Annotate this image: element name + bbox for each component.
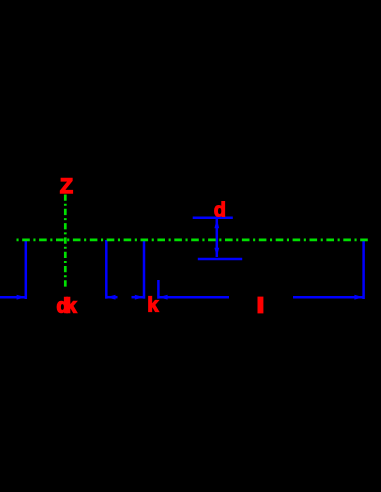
extension line k left [143, 240, 146, 299]
d dimension: vertical line [216, 219, 219, 257]
dimension l: line right part [293, 296, 364, 299]
d dimension: down arrow (tip at y=257) [214, 248, 219, 257]
dimension k: left arrow (tip at x=144, pointing right) [135, 295, 144, 300]
d dimension: up arrow (tip at y=219) [214, 219, 219, 228]
dimension l: line left part [158, 296, 229, 299]
centerline vertical (head front view axis) [64, 195, 67, 288]
d dimension: top extension line [193, 216, 233, 219]
dimension dk: left arrow (tip at x=25.8, pointing right) [17, 295, 26, 300]
dimension dk: right tail line [106, 296, 117, 299]
dimension l: right arrow (tip at x=363.6, pointing right) [354, 295, 363, 300]
extension line dk left [25, 239, 28, 299]
svg-text:Z: Z [60, 174, 73, 198]
dimension dk: right arrow (tip at x=106.3, pointing left) [106, 295, 115, 300]
extension line dk right [105, 240, 108, 299]
svg-text:k: k [147, 295, 159, 317]
extension line l right [362, 239, 365, 299]
dimension k: left tail line [132, 296, 145, 299]
d dimension: bottom extension line [198, 258, 242, 261]
svg-text:d: d [214, 200, 226, 222]
label l (drawn as bar) [258, 297, 264, 314]
dimension dk: left tail line [0, 296, 26, 299]
dimension l: left arrow (tip at x=158.4, pointing left) [158, 295, 167, 300]
extension line l left [157, 280, 160, 299]
centerline horizontal (screw axis) [17, 239, 369, 242]
